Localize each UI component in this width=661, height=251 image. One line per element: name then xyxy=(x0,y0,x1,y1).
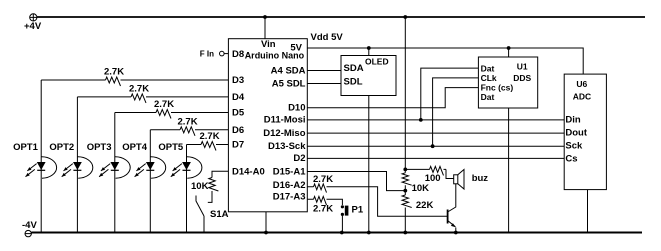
svg-text:Fnc (cs): Fnc (cs) xyxy=(481,83,514,93)
svg-text:Dat: Dat xyxy=(481,63,495,73)
svg-text:10K: 10K xyxy=(191,181,209,192)
svg-text:2.7K: 2.7K xyxy=(178,116,198,127)
svg-text:D15-A1: D15-A1 xyxy=(273,167,306,178)
svg-text:D3: D3 xyxy=(232,75,244,86)
svg-text:OPT2: OPT2 xyxy=(49,142,74,153)
svg-text:Din: Din xyxy=(565,115,581,126)
svg-text:S1A: S1A xyxy=(210,209,229,220)
svg-text:P1: P1 xyxy=(352,205,364,216)
svg-text:buz: buz xyxy=(472,173,489,184)
svg-text:CLk: CLk xyxy=(481,73,497,83)
svg-text:OLED: OLED xyxy=(365,56,389,66)
svg-text:Arduino Nano: Arduino Nano xyxy=(245,51,305,61)
svg-text:D13-Sck: D13-Sck xyxy=(268,141,306,152)
svg-text:2.7K: 2.7K xyxy=(200,131,220,142)
svg-text:D10: D10 xyxy=(288,103,305,114)
svg-text:D11-Mosi: D11-Mosi xyxy=(264,115,306,126)
svg-text:A5 SDL: A5 SDL xyxy=(272,79,306,90)
svg-text:SDA: SDA xyxy=(344,63,364,74)
svg-text:OPT1: OPT1 xyxy=(13,142,39,153)
svg-text:OPT3: OPT3 xyxy=(87,142,112,153)
svg-text:2.7K: 2.7K xyxy=(313,204,333,215)
svg-text:100: 100 xyxy=(425,173,441,184)
svg-text:2.7K: 2.7K xyxy=(104,67,124,78)
svg-text:D16-A2: D16-A2 xyxy=(273,180,306,191)
svg-text:D14-A0: D14-A0 xyxy=(232,167,265,178)
svg-text:F In: F In xyxy=(200,50,214,59)
svg-text:Cs: Cs xyxy=(565,153,577,164)
svg-text:22K: 22K xyxy=(416,200,434,211)
svg-text:Vdd 5V: Vdd 5V xyxy=(311,32,344,43)
svg-text:A4 SDA: A4 SDA xyxy=(271,66,306,77)
svg-text:OPT5: OPT5 xyxy=(158,142,184,153)
svg-text:10K: 10K xyxy=(412,183,430,194)
svg-text:D5: D5 xyxy=(232,108,245,119)
svg-text:ADC: ADC xyxy=(573,92,591,102)
svg-text:2.7K: 2.7K xyxy=(313,174,333,185)
svg-text:Dat: Dat xyxy=(481,92,495,102)
svg-text:D6: D6 xyxy=(232,125,244,136)
svg-text:2.7K: 2.7K xyxy=(129,83,149,94)
svg-text:Vin: Vin xyxy=(261,39,276,50)
svg-text:SDL: SDL xyxy=(344,77,363,88)
svg-text:D2: D2 xyxy=(293,153,305,164)
svg-text:U1: U1 xyxy=(517,62,528,72)
svg-text:D17-A3: D17-A3 xyxy=(273,192,306,203)
svg-text:2.7K: 2.7K xyxy=(154,99,174,110)
svg-text:D8: D8 xyxy=(232,49,244,60)
svg-text:Sck: Sck xyxy=(565,141,583,152)
svg-text:-4V: -4V xyxy=(22,220,37,231)
svg-text:D12-Miso: D12-Miso xyxy=(263,128,305,139)
svg-text:D7: D7 xyxy=(232,140,244,151)
svg-text:Dout: Dout xyxy=(565,128,587,139)
svg-text:D4: D4 xyxy=(232,92,245,103)
svg-text:U6: U6 xyxy=(576,79,587,89)
svg-text:OPT4: OPT4 xyxy=(122,142,148,153)
svg-text:DDS: DDS xyxy=(513,73,531,83)
svg-text:+4V: +4V xyxy=(24,21,42,32)
